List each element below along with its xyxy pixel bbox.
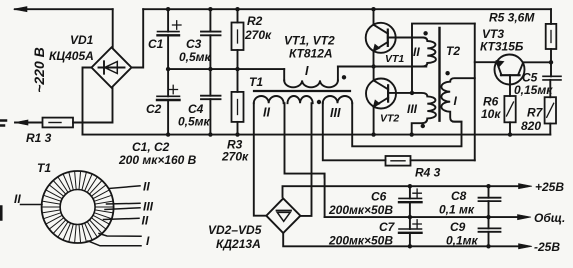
capacitor C5 xyxy=(543,75,561,77)
svg-text:270к: 270к xyxy=(221,150,249,164)
svg-text:C7: C7 xyxy=(379,220,396,234)
capacitor C9 xyxy=(488,217,490,228)
resistor R2 xyxy=(237,9,239,22)
svg-text:C3: C3 xyxy=(186,37,202,51)
phase dot T2-III xyxy=(421,124,425,128)
svg-text:-25В: -25В xyxy=(534,240,560,254)
node common rail / C6-C7 xyxy=(408,215,412,219)
wire: VT2 collector up to node xyxy=(373,67,375,81)
resistor R1 xyxy=(43,118,74,128)
transformer T2 winding II xyxy=(419,38,436,67)
wire: VT1 base to T2 winding II xyxy=(388,37,423,39)
svg-text:КЦ405А: КЦ405А xyxy=(49,49,94,63)
node +25V rail / C6 xyxy=(408,184,412,188)
svg-text:T1: T1 xyxy=(249,75,263,89)
transformer T2 winding III xyxy=(412,93,436,135)
svg-text:820: 820 xyxy=(521,119,541,133)
wire: +25V rail from bridge top xyxy=(283,186,520,197)
wire: stub overshoot xyxy=(323,174,325,178)
wire: common rail xyxy=(325,216,518,218)
capacitor C7 xyxy=(409,217,411,229)
svg-text:VD2–VD5: VD2–VD5 xyxy=(208,223,262,237)
svg-text:II: II xyxy=(413,45,420,59)
node common rail / C8-C9 xyxy=(486,215,490,219)
wire: VD1 right vertex riser to top rail xyxy=(132,9,144,67)
node VT1 emitter / VT2 collector xyxy=(371,64,375,68)
wire: VT2 base node riser and trigger feed line xyxy=(412,24,475,93)
wire: bottom bus xyxy=(83,134,551,136)
svg-text:C1, C2: C1, C2 xyxy=(132,140,170,154)
svg-text:III: III xyxy=(143,200,154,214)
capacitor C6 xyxy=(409,186,411,198)
wire: VT1 emitter down to node xyxy=(373,51,375,67)
transformer T1 winding III xyxy=(323,96,352,103)
wire: L4 winding II-2 right lead to VD2 bridge right vertex xyxy=(300,103,311,216)
svg-text:270к: 270к xyxy=(244,28,272,42)
transistor VT2 xyxy=(366,79,396,109)
svg-text:III: III xyxy=(330,106,341,120)
wire: AC top line with left arrow xyxy=(15,8,113,10)
svg-text:200мк×50В: 200мк×50В xyxy=(328,203,393,217)
node bottom bus / R6 xyxy=(508,132,512,136)
toroid lead II top right xyxy=(109,186,140,189)
node mid bus / C1-C2 xyxy=(166,67,170,71)
phase dot T1 sec xyxy=(317,100,321,104)
transformer T2 winding I xyxy=(441,78,474,122)
resistor R6 xyxy=(504,96,515,122)
svg-text:КД213А: КД213А xyxy=(216,237,261,251)
svg-text:C9: C9 xyxy=(450,220,466,234)
transistor VT3 xyxy=(495,55,525,85)
wire: L6 winding III right lead to T2-I bottom xyxy=(352,103,461,146)
svg-text:C8: C8 xyxy=(451,189,467,203)
wire: VT3 collector to R5/C5 node xyxy=(523,61,551,63)
svg-text:II: II xyxy=(142,214,149,228)
svg-text:10к: 10к xyxy=(481,107,501,121)
svg-text:VT1, VT2: VT1, VT2 xyxy=(284,34,335,48)
node bottom bus / C4 xyxy=(208,132,212,136)
node -25V rail / C9 xyxy=(486,244,490,248)
phase dot T1-I xyxy=(342,75,346,79)
wire: trigger feed riser xyxy=(474,24,476,161)
svg-text:C6: C6 xyxy=(371,190,387,204)
node VT2 base xyxy=(410,91,414,95)
phase dot T2-I xyxy=(445,71,449,75)
svg-text:КТ812А: КТ812А xyxy=(289,47,333,61)
wire: AC line down to VD1 top vertex xyxy=(112,9,114,47)
svg-text:II: II xyxy=(14,192,21,206)
node -25V rail / C7 xyxy=(408,244,412,248)
resistor R7 xyxy=(545,97,556,123)
wire: -25V rail from bridge bottom xyxy=(283,233,519,246)
svg-text:T2: T2 xyxy=(446,44,460,58)
bridge rectifier VD1 xyxy=(92,47,132,87)
wire: R4 right lead to trigger feed riser xyxy=(411,159,475,161)
svg-text:R4 3: R4 3 xyxy=(415,166,441,180)
node R5 / C5 / VT3 collector xyxy=(549,60,553,64)
node mid bus / R2-R3 xyxy=(235,67,239,71)
svg-text:T1: T1 xyxy=(37,161,51,175)
svg-text:0,1 мк: 0,1 мк xyxy=(439,203,475,217)
node top rail / VT1 collector xyxy=(371,7,375,11)
svg-text:0,1мк: 0,1мк xyxy=(446,234,479,248)
capacitor C1 xyxy=(167,9,169,31)
transformer T1 winding II section 1 xyxy=(254,96,284,103)
svg-text:I: I xyxy=(146,234,150,248)
resistor R5 xyxy=(550,9,552,24)
capacitor C3 xyxy=(209,9,211,31)
svg-text:C2: C2 xyxy=(146,102,162,116)
svg-text:0,5мк: 0,5мк xyxy=(178,115,211,129)
resistor R3 xyxy=(237,69,239,92)
capacitor C4 xyxy=(209,69,211,96)
node +25V rail / C8 xyxy=(486,184,490,188)
node top rail / C1 xyxy=(166,7,170,11)
svg-text:R7: R7 xyxy=(527,106,544,120)
svg-text:II: II xyxy=(143,180,150,194)
svg-text:R1 3: R1 3 xyxy=(26,131,52,145)
svg-text:КТ315Б: КТ315Б xyxy=(480,40,524,54)
T1 core xyxy=(254,90,350,92)
svg-text:VD1: VD1 xyxy=(70,33,94,47)
node top rail / R2 xyxy=(235,7,239,11)
wire: VD1 left vertex down to bottom bus (crossing R1 wire) xyxy=(83,68,92,135)
transformer T1 winding II section 2 xyxy=(288,96,313,103)
toroid lead II right xyxy=(104,218,140,219)
wire: VT3 emitter feed xyxy=(475,61,496,63)
wire: middle bus (C1/C2 midpoint to T1 winding I) xyxy=(168,68,284,70)
wire: VT2 base to node xyxy=(388,92,412,94)
svg-text:Общ.: Общ. xyxy=(534,211,565,225)
wire: AC bottom line with left arrow xyxy=(15,122,42,124)
transformer T2 core xyxy=(438,28,440,121)
node bottom bus / T2-III xyxy=(410,132,414,136)
svg-text:C1: C1 xyxy=(148,37,164,51)
node top rail / C3 xyxy=(208,7,212,11)
phase dot T2-II xyxy=(423,31,427,35)
wire: T1-I right end to VT1e/VT2c node xyxy=(338,66,426,68)
toroidal transformer T1 xyxy=(42,171,114,243)
svg-text:+25В: +25В xyxy=(535,180,564,194)
wire: VT1 collector to top rail xyxy=(373,9,375,25)
svg-text:R5 3,6М: R5 3,6М xyxy=(489,11,535,25)
toroid leads III right xyxy=(105,203,140,209)
capacitor C8 xyxy=(488,186,490,198)
wire: VT2 emitter down to bottom bus xyxy=(373,107,375,135)
svg-text:I: I xyxy=(305,64,309,78)
resistor R4 xyxy=(386,156,411,166)
node bottom bus / VT2 emitter xyxy=(371,132,375,136)
svg-text:0,5мк: 0,5мк xyxy=(179,50,212,64)
capacitor C2 xyxy=(167,69,169,96)
transistor VT1 xyxy=(366,23,396,53)
wire: L2 center tap to common rail xyxy=(285,103,325,217)
wire: R1 to VD1 bottom vertex xyxy=(73,88,113,123)
svg-text:~220 В: ~220 В xyxy=(31,47,47,93)
scan edge artifacts xyxy=(0,121,6,126)
svg-text:200мк×50В: 200мк×50В xyxy=(328,234,393,248)
svg-text:VT1: VT1 xyxy=(385,53,404,65)
diode bridge VD2-VD5 xyxy=(266,198,300,233)
toroid leads I bottom right xyxy=(99,234,141,237)
toroid left lead xyxy=(21,204,43,206)
wire: L5 winding III left lead to R4 left xyxy=(323,103,386,160)
svg-text:I: I xyxy=(454,94,458,108)
wire: L1 winding II-1 left lead to VD2 bridge left vertex xyxy=(254,103,266,216)
svg-text:III: III xyxy=(407,102,418,116)
transformer T1 winding I xyxy=(283,69,285,80)
wire: +DC top rail xyxy=(143,8,551,10)
svg-text:R2: R2 xyxy=(247,14,263,28)
node mid bus / C3-C4 xyxy=(208,67,212,71)
node bottom bus / C2 xyxy=(166,132,170,136)
svg-text:VT2: VT2 xyxy=(380,113,399,125)
node bottom bus / R3 xyxy=(235,132,239,136)
svg-text:II: II xyxy=(263,106,270,120)
svg-text:200 мк×160 В: 200 мк×160 В xyxy=(118,153,197,167)
svg-text:0,15мк: 0,15мк xyxy=(514,83,553,97)
